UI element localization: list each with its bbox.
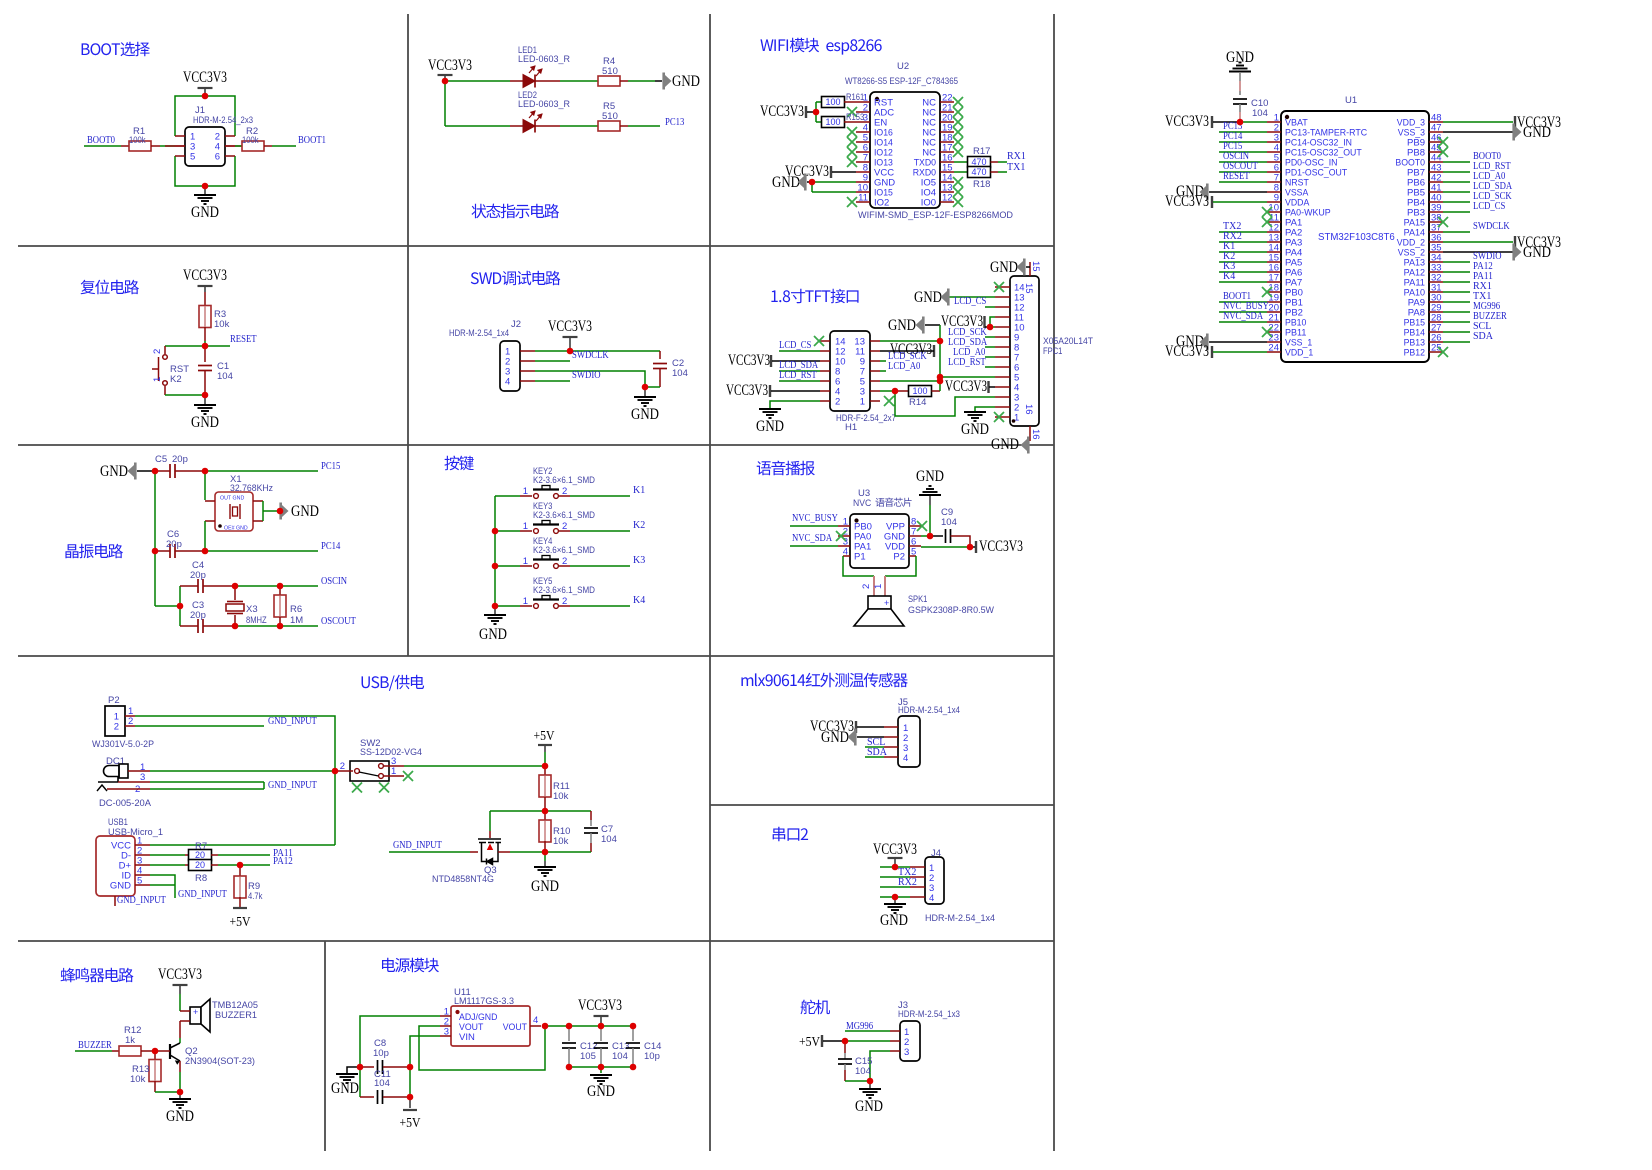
wire LCD_A0 xyxy=(985,356,995,358)
wire TX1 xyxy=(998,171,1007,173)
svg-text:HDR-M-2.54_2x3: HDR-M-2.54_2x3 xyxy=(193,115,253,126)
wire P2.2 GND_INPUT xyxy=(135,725,264,727)
svg-text:GND_INPUT: GND_INPUT xyxy=(393,840,442,851)
VCC3V3 tap xyxy=(805,106,807,118)
lead C9 right xyxy=(951,536,971,547)
resistor R1 100k xyxy=(129,141,151,151)
junction xyxy=(937,338,944,345)
pushbutton KEY3 xyxy=(520,521,570,534)
junction xyxy=(892,388,899,395)
lead C13 bottom xyxy=(600,1048,602,1067)
wire GND net vertical xyxy=(939,325,941,391)
junction xyxy=(277,623,284,630)
resistor R8 20 xyxy=(189,860,212,871)
wire SCL xyxy=(1443,331,1470,333)
svg-text:OE# GND: OE# GND xyxy=(224,526,248,532)
svg-text:VCC3V3: VCC3V3 xyxy=(760,103,804,120)
wire SW2.3 to +5V xyxy=(404,765,545,767)
junction xyxy=(177,1089,184,1096)
junction xyxy=(598,1064,605,1071)
resistor R10 10k xyxy=(539,820,551,842)
resistor R6 1M xyxy=(274,595,286,617)
wire to X1 xyxy=(204,471,206,500)
junction xyxy=(567,348,574,355)
connector J3 HDR-M-2.54_1x3 xyxy=(890,1021,920,1061)
svg-text:K2-3.6×6.1_SMD: K2-3.6×6.1_SMD xyxy=(533,545,595,556)
GND flag xyxy=(1200,334,1209,351)
svg-text:VCC3V3: VCC3V3 xyxy=(1165,193,1209,210)
svg-text:GND: GND xyxy=(1523,244,1551,261)
svg-text:104: 104 xyxy=(601,834,617,845)
svg-text:VCC3V3: VCC3V3 xyxy=(1165,343,1209,360)
no-connect X xyxy=(1438,217,1448,227)
svg-text:GND: GND xyxy=(166,1108,194,1125)
wire SWDIO xyxy=(1443,261,1470,263)
wire TX2 xyxy=(880,876,910,878)
svg-text:100: 100 xyxy=(825,117,840,127)
lead R153 to EN xyxy=(844,121,856,123)
svg-text:16: 16 xyxy=(1023,404,1034,415)
wire VCC stem xyxy=(179,985,181,994)
svg-text:LCD_CS: LCD_CS xyxy=(954,296,986,307)
junction xyxy=(813,109,820,116)
wire SCL xyxy=(865,746,884,748)
svg-text:GSPK2308P-8R0.5W: GSPK2308P-8R0.5W xyxy=(908,605,994,616)
svg-text:LCD_A0: LCD_A0 xyxy=(888,361,920,372)
svg-text:104: 104 xyxy=(941,517,957,528)
ground xyxy=(590,1075,612,1084)
junction xyxy=(892,864,899,871)
svg-text:510: 510 xyxy=(602,111,618,122)
svg-text:2: 2 xyxy=(861,584,872,589)
wire J4.1 xyxy=(880,866,910,868)
wire xyxy=(544,852,546,861)
capacitor C5 20p xyxy=(170,464,175,478)
wire VIN rail down xyxy=(409,1067,411,1097)
lead R3 bottom xyxy=(204,327,206,341)
regulator U11 LM1117GS-3.3 xyxy=(440,1006,541,1046)
wire VCC stem xyxy=(204,286,206,292)
junction xyxy=(967,544,974,551)
wire NVC_SDA xyxy=(1219,321,1267,323)
svg-text:10k: 10k xyxy=(130,1074,146,1085)
LED LED2 xyxy=(510,111,545,133)
connector H1 HDR-F-2.54_2x7 xyxy=(820,331,880,411)
svg-text:GND: GND xyxy=(587,1083,615,1100)
svg-text:IO2: IO2 xyxy=(874,198,889,209)
lead LED cathode xyxy=(545,80,560,82)
wire GND flag xyxy=(807,181,812,183)
svg-text:GND: GND xyxy=(914,289,942,306)
wire buzzer to Q2 collector xyxy=(179,1021,181,1038)
pushbutton KEY2 xyxy=(520,486,570,499)
junction xyxy=(642,384,649,391)
wire RX2 xyxy=(1219,241,1267,243)
wire ID to GND_INPUT xyxy=(150,875,175,898)
wire VDD xyxy=(921,546,970,548)
connector FPC1 X05A20L14T xyxy=(995,261,1041,441)
lead C3 right xyxy=(203,625,235,627)
wire VCC stem xyxy=(894,858,896,867)
svg-text:104: 104 xyxy=(217,371,233,382)
wire GND net vertical xyxy=(154,471,156,606)
wire D- xyxy=(150,854,185,856)
svg-text:VCC3V3: VCC3V3 xyxy=(158,966,202,983)
svg-text:470: 470 xyxy=(971,157,986,167)
wire SDA xyxy=(865,756,884,758)
svg-text:8MHZ: 8MHZ xyxy=(246,615,267,626)
svg-text:104: 104 xyxy=(672,368,688,379)
wire xyxy=(1239,91,1241,95)
wire VCC xyxy=(1213,201,1267,203)
wire TX1 xyxy=(1443,301,1470,303)
no-connect X xyxy=(1262,287,1272,297)
svg-text:BUZZER: BUZZER xyxy=(78,1040,112,1051)
junction xyxy=(630,1064,637,1071)
wire PA12 xyxy=(1443,271,1470,273)
wifi module U2 WT8266-S5 ESP-12F xyxy=(856,92,954,209)
capacitor C2 104 xyxy=(653,364,667,369)
pushbutton KEY5 xyxy=(520,596,570,609)
wire VCC to FPC.10 xyxy=(990,326,995,328)
svg-text:15: 15 xyxy=(1030,261,1041,272)
voice chip U3 NVC xyxy=(838,514,921,568)
no-connect X xyxy=(953,127,963,137)
VCC3V3 tap xyxy=(1211,196,1213,208)
svg-text:WT8266-S5 ESP-12F_C784365: WT8266-S5 ESP-12F_C784365 xyxy=(845,76,958,87)
wire LCD_SDA xyxy=(779,370,820,372)
wire LCD_SCK xyxy=(880,360,886,362)
lead C15 top xyxy=(844,1041,846,1053)
wire GND to pin15 xyxy=(1026,266,1030,268)
wire GND stem xyxy=(929,496,931,505)
connector J1 HDR-M-2.54_2x3 xyxy=(175,127,235,166)
svg-text:VCC3V3: VCC3V3 xyxy=(183,267,227,284)
GND flag xyxy=(916,317,925,334)
wire J1 pins 5-6 to GND xyxy=(175,156,235,186)
svg-text:2: 2 xyxy=(128,716,133,727)
svg-text:4: 4 xyxy=(903,753,908,764)
wire to GND xyxy=(204,186,206,194)
svg-text:P1: P1 xyxy=(854,552,866,563)
wire VCC xyxy=(1213,351,1267,353)
section title 电源模块 xyxy=(382,958,439,973)
wire FPC.2 to GND xyxy=(975,407,995,411)
wire NVC_SDA xyxy=(790,545,838,547)
lead Q3 gate xyxy=(470,851,478,853)
no-connect X xyxy=(1438,147,1448,157)
svg-text:HDR-M-2.54_1x4: HDR-M-2.54_1x4 xyxy=(898,705,960,716)
junction xyxy=(202,392,209,399)
section title 串口2 xyxy=(773,827,808,842)
wire J2.3 to GND xyxy=(535,371,645,387)
wire R11 to Q3/C7 xyxy=(490,810,591,812)
svg-text:100k: 100k xyxy=(242,135,259,146)
svg-text:GND: GND xyxy=(631,406,659,423)
wire VCC to buzzer xyxy=(179,994,181,1011)
wire to C3/C4 xyxy=(155,605,180,607)
capacitor C6 20p xyxy=(170,544,175,558)
svg-text:100: 100 xyxy=(825,97,840,107)
wire PC13 xyxy=(1219,131,1267,133)
wire VCC stem xyxy=(204,88,206,96)
ground xyxy=(194,405,216,414)
microcontroller U1 STM32F103C8T6 xyxy=(1267,111,1443,362)
lead R7 xyxy=(185,854,189,856)
svg-text:IO0: IO0 xyxy=(921,198,936,209)
lead C12 bottom xyxy=(568,1048,570,1067)
svg-text:GND_INPUT: GND_INPUT xyxy=(117,895,166,906)
junction xyxy=(542,808,549,815)
wire to switch xyxy=(165,345,205,347)
wire PA12 xyxy=(218,864,270,866)
lead C8 left xyxy=(360,1066,374,1068)
lead C9 left xyxy=(930,535,943,537)
ground xyxy=(919,486,941,495)
no-connect X xyxy=(847,197,857,207)
svg-text:GND: GND xyxy=(191,204,219,221)
resistor R153 100 xyxy=(822,117,845,128)
no-connect X xyxy=(1262,207,1272,217)
wire H1.2 to GND xyxy=(770,401,820,408)
junction xyxy=(542,849,549,856)
resistor R161 100 xyxy=(822,97,845,108)
capacitor C12 105 xyxy=(562,1043,576,1048)
svg-text:VCC3V3: VCC3V3 xyxy=(1165,113,1209,130)
wire GND vertical xyxy=(929,505,931,536)
transistor Q2 2N3904 xyxy=(170,1043,180,1065)
lead R9 bottom xyxy=(239,897,241,907)
svg-text:K2-3.6×6.1_SMD: K2-3.6×6.1_SMD xyxy=(533,475,595,486)
wire R13 to GND xyxy=(155,1091,180,1093)
wire key left xyxy=(495,565,520,567)
wire OSCIN net xyxy=(235,585,280,587)
wire FPC.3 to R14 node xyxy=(895,391,995,416)
wire PC14 xyxy=(1219,141,1267,143)
junction xyxy=(277,583,284,590)
lead R10 top xyxy=(544,811,546,821)
svg-text:104: 104 xyxy=(612,1051,628,1062)
svg-text:OSCOUT: OSCOUT xyxy=(321,616,356,627)
svg-text:3: 3 xyxy=(444,1027,449,1038)
lead LED cathode xyxy=(545,125,560,127)
svg-text:GND: GND xyxy=(291,503,319,520)
svg-text:20p: 20p xyxy=(190,570,206,581)
no-connect X xyxy=(1262,217,1272,227)
lead C7 xyxy=(590,820,592,826)
resistor R5 510 xyxy=(598,121,620,131)
wire VOUT feedback loop xyxy=(419,1026,545,1070)
GND flag xyxy=(848,729,857,746)
svg-text:GND: GND xyxy=(1523,124,1551,141)
junction xyxy=(237,862,244,869)
wire VCC xyxy=(1443,241,1513,243)
lead C4 right xyxy=(203,585,235,587)
svg-text:1: 1 xyxy=(523,596,528,607)
pin stub DC1.3 xyxy=(118,781,150,783)
VCC3V3 tap xyxy=(830,166,832,178)
wire C2 to GND xyxy=(645,386,660,388)
lead Q2 emitter xyxy=(179,1061,181,1072)
section border grid xyxy=(18,14,1054,1151)
wire xyxy=(1239,81,1241,91)
GND flag xyxy=(1021,437,1030,454)
svg-text:GND: GND xyxy=(331,1080,359,1097)
svg-text:BUZZER1: BUZZER1 xyxy=(215,1010,257,1021)
junction xyxy=(152,1048,159,1055)
svg-text:R17: R17 xyxy=(973,146,990,157)
no-connect X xyxy=(836,531,846,541)
wire GND xyxy=(921,535,930,537)
junction xyxy=(492,528,499,535)
section title mlx90614红外测温传感器 xyxy=(741,673,907,688)
lead right xyxy=(620,125,628,127)
svg-text:GND_INPUT: GND_INPUT xyxy=(268,716,317,727)
lead R13 top xyxy=(154,1051,156,1060)
wire VCC to J1 pins 1-2 xyxy=(175,96,235,136)
lead C3 left xyxy=(180,625,198,627)
wire key right xyxy=(570,565,630,567)
lead R161 to RST xyxy=(844,101,856,103)
wire BOOT0 xyxy=(1443,161,1470,163)
ground xyxy=(169,1099,191,1108)
wire SDA xyxy=(1443,341,1470,343)
wire to GND xyxy=(179,1092,181,1098)
wire H1.13 to GND net xyxy=(880,340,940,342)
junction xyxy=(566,1064,573,1071)
junction xyxy=(927,533,934,540)
wire PA11 xyxy=(1443,281,1470,283)
+5V tap xyxy=(821,1035,823,1047)
lead C6 left xyxy=(155,550,170,552)
svg-text:R18: R18 xyxy=(973,179,990,190)
pin stub DC1.1 xyxy=(128,770,150,772)
wire GND stem xyxy=(1239,72,1241,81)
section title 晶振电路 xyxy=(65,544,123,559)
ground xyxy=(964,412,986,421)
svg-text:GND_INPUT: GND_INPUT xyxy=(178,889,227,900)
svg-text:R14: R14 xyxy=(909,397,926,408)
wire PC15 xyxy=(1219,151,1267,153)
svg-text:+5V: +5V xyxy=(534,728,555,743)
svg-text:GND: GND xyxy=(916,468,944,485)
wire to GND xyxy=(544,861,546,866)
wire DC1.2 xyxy=(150,788,264,790)
svg-text:P2: P2 xyxy=(108,695,120,706)
section title 复位电路 xyxy=(81,280,139,295)
lead R2 right xyxy=(264,145,272,147)
wire VCC stem xyxy=(444,75,446,81)
svg-text:GND: GND xyxy=(756,418,784,435)
svg-text:104: 104 xyxy=(1252,108,1268,119)
speaker SPK1 GSPK2308P-8R0.5W xyxy=(854,576,904,626)
section title 蜂鸣器电路 xyxy=(61,968,134,983)
svg-text:NVC_BUSY: NVC_BUSY xyxy=(792,513,838,524)
svg-text:GND: GND xyxy=(191,414,219,431)
wire H1.11 to VCC xyxy=(880,350,934,352)
wire DC1 tip to SW2 xyxy=(150,770,335,772)
wire P1 to speaker xyxy=(843,556,874,576)
wire PC15 xyxy=(205,470,318,472)
ground xyxy=(194,195,216,204)
no-connect X xyxy=(953,107,963,117)
wire key right xyxy=(570,530,630,532)
lead C14 bottom xyxy=(632,1048,634,1067)
VCC3V3 tap xyxy=(1514,116,1516,128)
svg-text:STM32F103C8T6: STM32F103C8T6 xyxy=(1318,231,1395,243)
resistor R7 20 xyxy=(189,850,212,861)
svg-text:+5V: +5V xyxy=(230,914,251,929)
junction xyxy=(542,1023,549,1030)
wire C15 to GND xyxy=(845,1080,870,1082)
lead C7 bottom xyxy=(590,843,592,852)
resistor R13 10k xyxy=(149,1060,161,1082)
lead R12 left xyxy=(112,1050,119,1052)
no-connect X xyxy=(884,396,894,406)
no-connect X xyxy=(953,97,963,107)
wire to Q2 base xyxy=(155,1050,170,1052)
svg-text:VCC3V3: VCC3V3 xyxy=(945,378,987,395)
svg-text:1: 1 xyxy=(523,521,528,532)
wire OSCIN xyxy=(280,585,318,587)
svg-text:20p: 20p xyxy=(166,539,182,550)
lead C11 left xyxy=(360,1096,374,1098)
section title BOOT选择 xyxy=(82,42,150,57)
connector J5 HDR-M-2.54_1x4 xyxy=(884,716,920,767)
svg-text:SWDCLK: SWDCLK xyxy=(1473,221,1510,232)
wire LCD_SCK xyxy=(985,336,995,338)
wire R5 to PC13 xyxy=(628,125,660,127)
capacitor C9 104 xyxy=(946,529,951,543)
svg-text:1: 1 xyxy=(860,397,865,408)
lead C13 top xyxy=(600,1026,602,1041)
wire GND xyxy=(1443,251,1513,253)
svg-text:105: 105 xyxy=(580,1051,596,1062)
lead C5 right xyxy=(175,470,205,472)
section title WIFI模块 esp8266 xyxy=(760,38,881,55)
section title 舵机 xyxy=(801,1000,830,1015)
wire +5V xyxy=(823,1040,845,1042)
svg-text:4.7k: 4.7k xyxy=(248,891,263,902)
svg-text:20p: 20p xyxy=(172,454,188,465)
wire key left xyxy=(495,530,520,532)
svg-text:104: 104 xyxy=(374,1078,390,1089)
no-connect X xyxy=(953,137,963,147)
buzzer BUZZER1 TMB12A05 xyxy=(180,999,210,1032)
capacitor C15 104 xyxy=(838,1059,852,1064)
crystal X3 8MHZ xyxy=(226,586,244,626)
wire K1 xyxy=(1219,251,1267,253)
lead R1 right xyxy=(151,145,160,147)
wire FPC.5 to GND net xyxy=(940,376,995,378)
wire to LED1 xyxy=(445,80,510,82)
svg-text:K1: K1 xyxy=(633,485,645,496)
wire +5V to J3.2 xyxy=(845,1040,890,1042)
resistor R12 1k xyxy=(119,1046,141,1056)
wire X1 to PC14 xyxy=(204,521,206,551)
resistor R14 100 xyxy=(909,386,932,397)
no-connect X xyxy=(352,783,362,793)
wire to GND xyxy=(894,897,896,903)
wire FPC.11 elbow xyxy=(990,317,995,327)
svg-text:BOOT0: BOOT0 xyxy=(87,135,115,146)
lead R17 xyxy=(991,161,999,163)
junction xyxy=(809,179,816,186)
svg-text:+: + xyxy=(884,598,889,608)
svg-text:2: 2 xyxy=(562,556,567,567)
LED LED1 xyxy=(510,66,545,88)
wire VCC to J5.1 xyxy=(857,726,884,728)
